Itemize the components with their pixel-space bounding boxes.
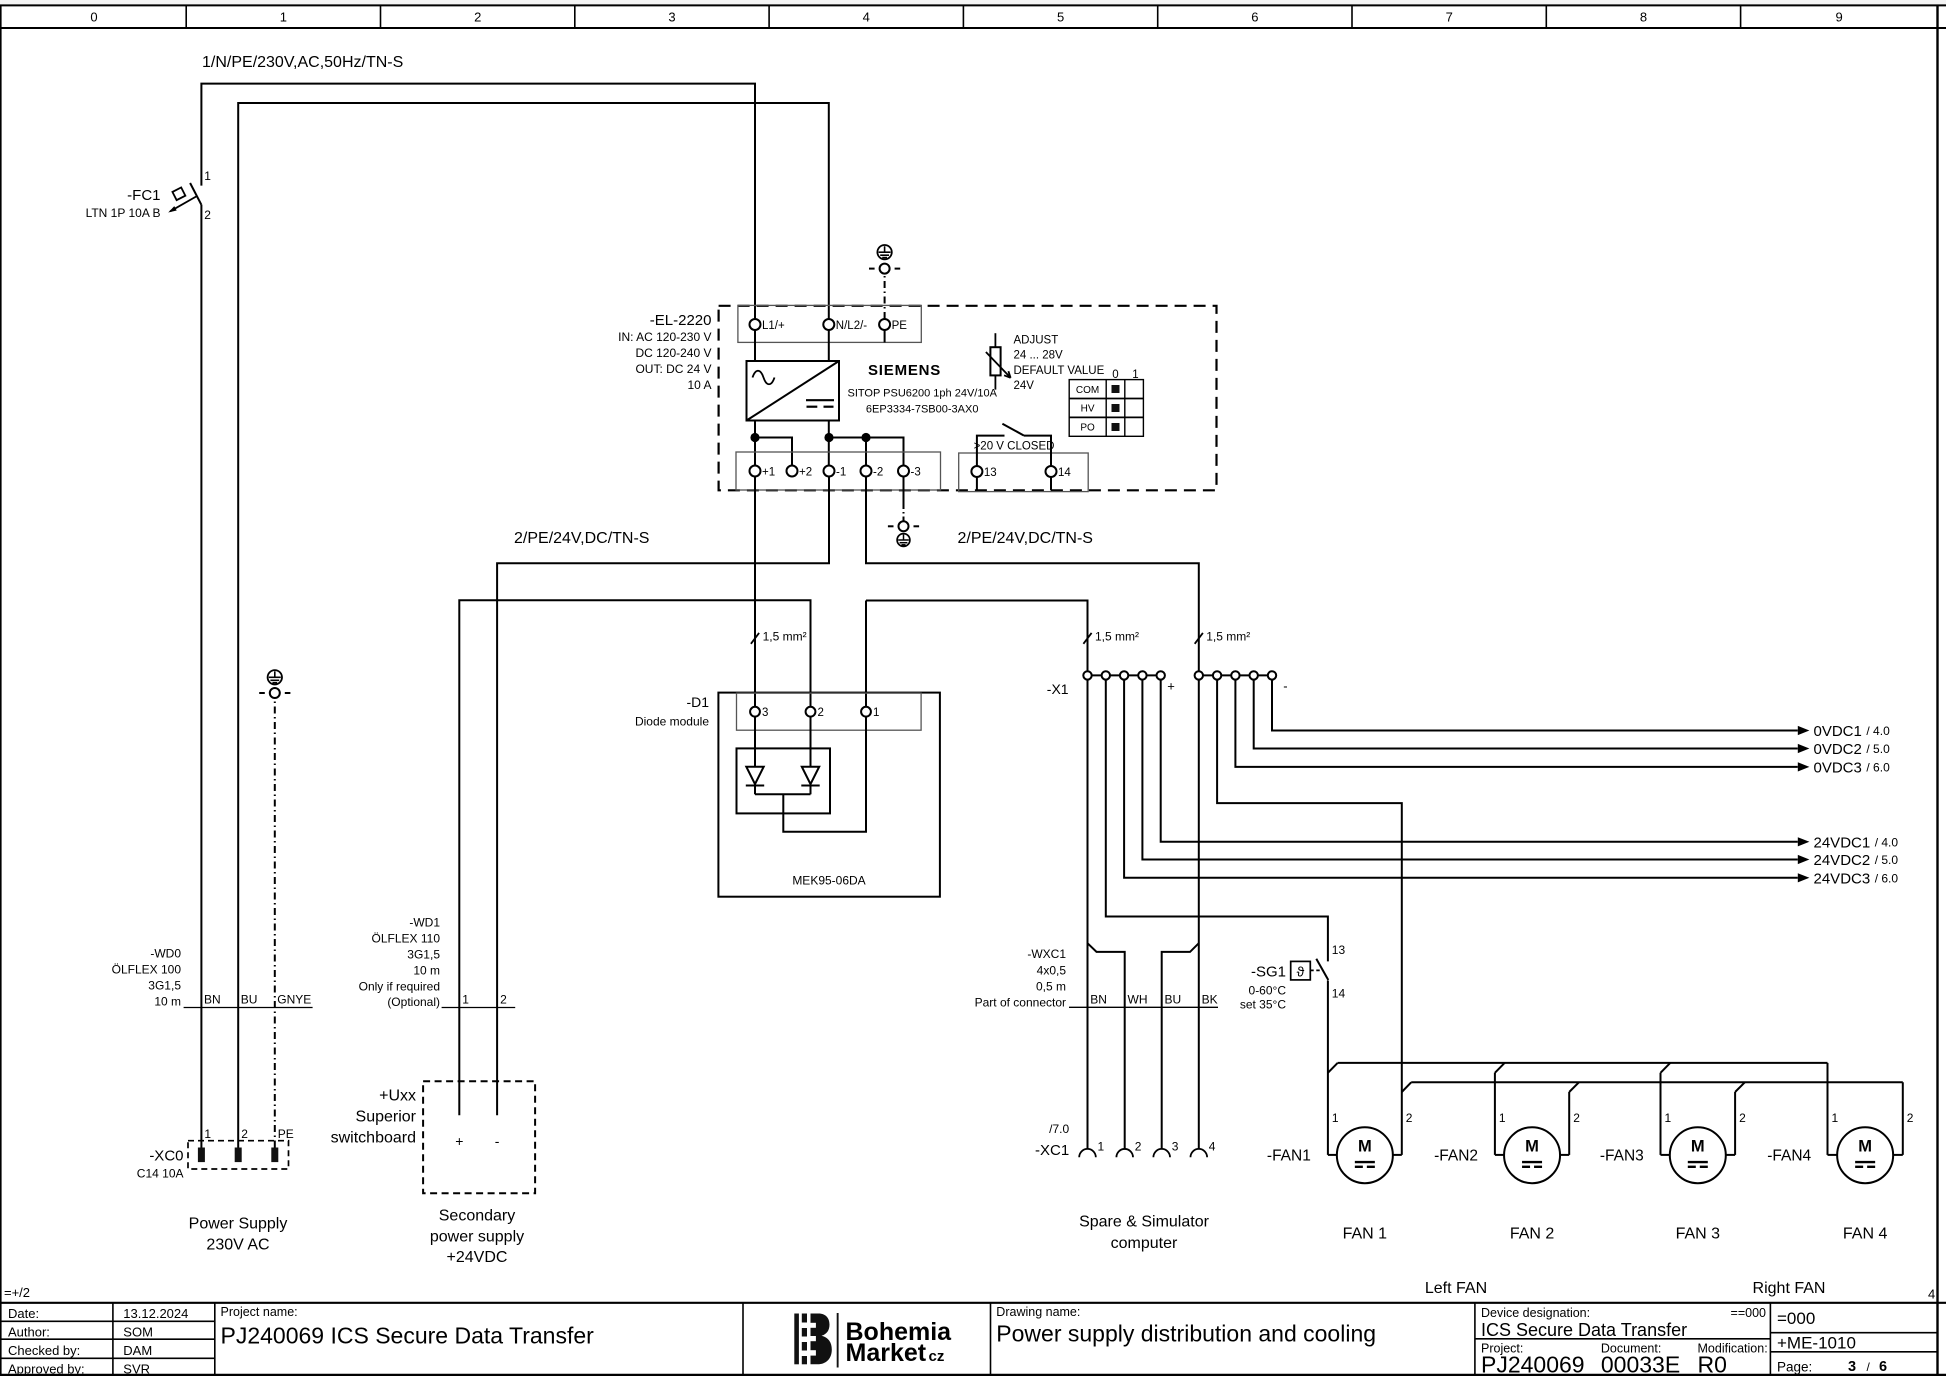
svg-text:Date:: Date: bbox=[8, 1306, 39, 1321]
svg-text:power supply: power supply bbox=[430, 1229, 524, 1246]
svg-text:Market: Market bbox=[846, 1339, 927, 1367]
svg-text:FAN 4: FAN 4 bbox=[1843, 1226, 1888, 1243]
svg-text:LTN 1P 10A B: LTN 1P 10A B bbox=[86, 206, 161, 220]
svg-text:2: 2 bbox=[818, 707, 824, 719]
svg-text:4: 4 bbox=[1209, 1140, 1216, 1154]
svg-text:-FAN3: -FAN3 bbox=[1600, 1148, 1644, 1165]
svg-text:-FC1: -FC1 bbox=[127, 187, 160, 204]
svg-text:-X1: -X1 bbox=[1047, 681, 1069, 697]
svg-text:8: 8 bbox=[1640, 10, 1647, 25]
svg-text:Drawing name:: Drawing name: bbox=[996, 1305, 1080, 1319]
svg-text:10 m: 10 m bbox=[154, 995, 181, 1009]
svg-text:-WD0: -WD0 bbox=[150, 947, 181, 961]
svg-text:C14 10A: C14 10A bbox=[137, 1167, 184, 1181]
svg-text:SITOP PSU6200 1ph 24V/10A: SITOP PSU6200 1ph 24V/10A bbox=[847, 388, 997, 400]
svg-text:10 m: 10 m bbox=[413, 964, 440, 978]
svg-text:Device designation:: Device designation: bbox=[1481, 1306, 1590, 1320]
svg-text:Right FAN: Right FAN bbox=[1753, 1280, 1826, 1297]
svg-text:1: 1 bbox=[873, 707, 879, 719]
svg-text:14: 14 bbox=[1058, 467, 1071, 479]
svg-text:2/PE/24V,DC/TN-S: 2/PE/24V,DC/TN-S bbox=[958, 530, 1093, 547]
svg-text:-2: -2 bbox=[873, 467, 883, 479]
svg-text:ADJUST: ADJUST bbox=[1014, 335, 1059, 347]
svg-text:/ 6.0: / 6.0 bbox=[1875, 871, 1899, 885]
svg-text:2: 2 bbox=[474, 10, 481, 25]
svg-text:3: 3 bbox=[1172, 1140, 1179, 1154]
svg-text:-1: -1 bbox=[836, 467, 846, 479]
svg-text:computer: computer bbox=[1111, 1235, 1178, 1252]
svg-text:=+/2: =+/2 bbox=[4, 1285, 30, 1300]
svg-text:4: 4 bbox=[1928, 1287, 1935, 1302]
svg-text:1: 1 bbox=[1832, 1111, 1839, 1125]
svg-text:switchboard: switchboard bbox=[331, 1130, 416, 1147]
svg-text:2: 2 bbox=[1739, 1111, 1746, 1125]
svg-text:PO: PO bbox=[1080, 423, 1095, 434]
svg-text:Part of connector: Part of connector bbox=[975, 996, 1066, 1010]
svg-text:6: 6 bbox=[1879, 1359, 1887, 1375]
svg-text:Diode module: Diode module bbox=[635, 715, 709, 729]
svg-text:Secondary: Secondary bbox=[439, 1208, 516, 1225]
svg-text:2/PE/24V,DC/TN-S: 2/PE/24V,DC/TN-S bbox=[514, 530, 649, 547]
svg-text:0: 0 bbox=[90, 10, 97, 25]
svg-text:>20 V CLOSED: >20 V CLOSED bbox=[974, 441, 1055, 453]
svg-text:24 ... 28V: 24 ... 28V bbox=[1014, 350, 1064, 362]
svg-text:3G1,5: 3G1,5 bbox=[407, 948, 440, 962]
svg-text:Author:: Author: bbox=[8, 1325, 50, 1340]
svg-text:2: 2 bbox=[1907, 1111, 1914, 1125]
svg-text:PE: PE bbox=[278, 1127, 294, 1141]
svg-text:Spare & Simulator: Spare & Simulator bbox=[1079, 1214, 1210, 1231]
svg-text:13: 13 bbox=[984, 467, 997, 479]
svg-text:2: 2 bbox=[500, 993, 507, 1007]
svg-text:Power supply distribution and: Power supply distribution and cooling bbox=[996, 1321, 1376, 1347]
svg-text:L1/+: L1/+ bbox=[762, 320, 785, 332]
svg-text:1,5 mm²: 1,5 mm² bbox=[1206, 630, 1250, 644]
svg-text:-SG1: -SG1 bbox=[1251, 964, 1286, 981]
svg-text:1: 1 bbox=[280, 10, 287, 25]
svg-text:24V: 24V bbox=[1014, 380, 1035, 392]
svg-text:2: 2 bbox=[1573, 1111, 1580, 1125]
svg-text:OUT: DC 24 V: OUT: DC 24 V bbox=[635, 362, 711, 376]
svg-text:0-60°C: 0-60°C bbox=[1249, 984, 1287, 998]
svg-text:M: M bbox=[1858, 1138, 1872, 1156]
svg-text:DEFAULT VALUE: DEFAULT VALUE bbox=[1014, 365, 1105, 377]
svg-text:/ 4.0: / 4.0 bbox=[1866, 724, 1890, 738]
svg-text:GNYE: GNYE bbox=[277, 993, 311, 1007]
svg-text:2: 2 bbox=[241, 1127, 248, 1141]
svg-text:/ 6.0: / 6.0 bbox=[1866, 760, 1890, 774]
svg-text:BN: BN bbox=[204, 993, 221, 1007]
svg-text:Power Supply: Power Supply bbox=[189, 1216, 288, 1233]
svg-text:FAN 1: FAN 1 bbox=[1343, 1226, 1388, 1243]
svg-text:R0: R0 bbox=[1698, 1352, 1727, 1376]
svg-text:0: 0 bbox=[1112, 369, 1118, 381]
svg-text:1: 1 bbox=[1332, 1111, 1339, 1125]
svg-text:-FAN2: -FAN2 bbox=[1434, 1148, 1478, 1165]
svg-text:M: M bbox=[1525, 1138, 1539, 1156]
svg-text:1: 1 bbox=[1499, 1111, 1506, 1125]
svg-text:FAN 3: FAN 3 bbox=[1676, 1226, 1721, 1243]
svg-text:-: - bbox=[1283, 679, 1287, 694]
svg-text:Project name:: Project name: bbox=[221, 1305, 298, 1319]
svg-text:/7.0: /7.0 bbox=[1049, 1122, 1069, 1136]
svg-text:5: 5 bbox=[1057, 10, 1064, 25]
svg-text:0VDC1: 0VDC1 bbox=[1814, 723, 1862, 740]
svg-text:9: 9 bbox=[1835, 10, 1842, 25]
svg-text:DAM: DAM bbox=[123, 1343, 152, 1358]
svg-text:1,5 mm²: 1,5 mm² bbox=[1095, 630, 1139, 644]
svg-text:M: M bbox=[1691, 1138, 1705, 1156]
svg-text:-XC0: -XC0 bbox=[149, 1148, 183, 1165]
svg-text:+1: +1 bbox=[762, 467, 775, 479]
svg-text:SVR: SVR bbox=[123, 1362, 150, 1376]
svg-text:cz: cz bbox=[929, 1348, 945, 1365]
svg-text:DC 120-240 V: DC 120-240 V bbox=[635, 346, 711, 360]
svg-text:/ 4.0: / 4.0 bbox=[1875, 835, 1899, 849]
svg-text:230V AC: 230V AC bbox=[206, 1237, 269, 1254]
svg-text:24VDC2: 24VDC2 bbox=[1814, 852, 1871, 869]
svg-text:+: + bbox=[1167, 679, 1175, 694]
svg-text:ϑ: ϑ bbox=[1297, 964, 1305, 980]
svg-text:Left FAN: Left FAN bbox=[1425, 1280, 1487, 1297]
svg-text:==000: ==000 bbox=[1731, 1306, 1767, 1320]
svg-text:2: 2 bbox=[1135, 1140, 1142, 1154]
svg-text:0,5 m: 0,5 m bbox=[1036, 980, 1066, 994]
svg-text:24VDC3: 24VDC3 bbox=[1814, 870, 1871, 887]
svg-text:1: 1 bbox=[1098, 1140, 1105, 1154]
svg-text:1,5 mm²: 1,5 mm² bbox=[763, 630, 807, 644]
svg-text:2: 2 bbox=[204, 208, 211, 222]
svg-text:=000: =000 bbox=[1777, 1309, 1815, 1328]
svg-text:Checked by:: Checked by: bbox=[8, 1343, 80, 1358]
svg-text:Only if required: Only if required bbox=[359, 980, 440, 994]
svg-text:Page:: Page: bbox=[1777, 1360, 1812, 1375]
svg-text:3G1,5: 3G1,5 bbox=[148, 979, 181, 993]
svg-text:MEK95-06DA: MEK95-06DA bbox=[792, 874, 865, 888]
svg-text:M: M bbox=[1358, 1138, 1372, 1156]
svg-text:N/L2/-: N/L2/- bbox=[836, 320, 867, 332]
svg-text:COM: COM bbox=[1076, 385, 1099, 396]
svg-text:-WD1: -WD1 bbox=[409, 916, 440, 930]
svg-text:24VDC1: 24VDC1 bbox=[1814, 834, 1871, 851]
svg-text:00033E: 00033E bbox=[1601, 1352, 1680, 1376]
svg-text:PJ240069 ICS Secure Data Trans: PJ240069 ICS Secure Data Transfer bbox=[221, 1323, 595, 1349]
svg-text:1: 1 bbox=[1132, 369, 1138, 381]
svg-text:IN: AC 120-230 V: IN: AC 120-230 V bbox=[618, 330, 711, 344]
svg-text:-EL-2220: -EL-2220 bbox=[650, 312, 712, 329]
svg-text:BN: BN bbox=[1090, 993, 1107, 1007]
svg-text:4x0,5: 4x0,5 bbox=[1037, 964, 1067, 978]
svg-text:/ 5.0: / 5.0 bbox=[1866, 742, 1890, 756]
svg-text:7: 7 bbox=[1446, 10, 1453, 25]
svg-text:+: + bbox=[455, 1133, 463, 1149]
svg-text:SIEMENS: SIEMENS bbox=[868, 362, 941, 379]
svg-text:PE: PE bbox=[892, 320, 908, 332]
svg-text:/ 5.0: / 5.0 bbox=[1875, 853, 1899, 867]
svg-text:+2: +2 bbox=[799, 467, 812, 479]
svg-text:-D1: -D1 bbox=[686, 694, 709, 710]
svg-text:PJ240069: PJ240069 bbox=[1481, 1352, 1585, 1376]
svg-text:SOM: SOM bbox=[123, 1325, 153, 1340]
svg-text:1/N/PE/230V,AC,50Hz/TN-S: 1/N/PE/230V,AC,50Hz/TN-S bbox=[202, 54, 403, 71]
svg-text:ÖLFLEX 100: ÖLFLEX 100 bbox=[112, 963, 182, 977]
svg-text:-FAN1: -FAN1 bbox=[1267, 1148, 1311, 1165]
svg-text:-WXC1: -WXC1 bbox=[1027, 947, 1066, 961]
svg-text:13: 13 bbox=[1332, 943, 1346, 957]
svg-text:0VDC3: 0VDC3 bbox=[1814, 759, 1862, 776]
svg-text:2: 2 bbox=[1406, 1111, 1413, 1125]
svg-text:ICS Secure Data Transfer: ICS Secure Data Transfer bbox=[1481, 1320, 1687, 1340]
svg-text:3: 3 bbox=[1848, 1359, 1856, 1375]
svg-text:13.12.2024: 13.12.2024 bbox=[123, 1306, 188, 1321]
svg-text:-3: -3 bbox=[911, 467, 921, 479]
svg-text:BU: BU bbox=[241, 993, 258, 1007]
svg-text:1: 1 bbox=[204, 169, 211, 183]
svg-text:Approved by:: Approved by: bbox=[8, 1362, 85, 1376]
svg-text:set 35°C: set 35°C bbox=[1240, 998, 1286, 1012]
svg-text:14: 14 bbox=[1332, 987, 1346, 1001]
svg-text:BU: BU bbox=[1165, 993, 1182, 1007]
svg-text:1: 1 bbox=[1665, 1111, 1672, 1125]
svg-text:HV: HV bbox=[1081, 404, 1095, 415]
svg-text:-FAN4: -FAN4 bbox=[1767, 1148, 1811, 1165]
svg-text:3: 3 bbox=[762, 707, 768, 719]
svg-text:+ME-1010: +ME-1010 bbox=[1777, 1334, 1856, 1353]
svg-text:BK: BK bbox=[1202, 993, 1218, 1007]
svg-text:FAN 2: FAN 2 bbox=[1510, 1226, 1555, 1243]
svg-text:Superior: Superior bbox=[356, 1109, 417, 1126]
svg-text:0VDC2: 0VDC2 bbox=[1814, 741, 1862, 758]
svg-text:6: 6 bbox=[1251, 10, 1258, 25]
svg-text:4: 4 bbox=[863, 10, 870, 25]
svg-text:-XC1: -XC1 bbox=[1035, 1142, 1069, 1159]
svg-text:1: 1 bbox=[204, 1127, 211, 1141]
svg-text:+Uxx: +Uxx bbox=[379, 1088, 416, 1105]
svg-text:-: - bbox=[495, 1133, 500, 1149]
svg-text:(Optional): (Optional) bbox=[387, 995, 440, 1009]
svg-text:1: 1 bbox=[462, 993, 469, 1007]
svg-text:ÖLFLEX 110: ÖLFLEX 110 bbox=[372, 932, 441, 946]
svg-text:WH: WH bbox=[1128, 993, 1148, 1007]
svg-text:+24VDC: +24VDC bbox=[447, 1249, 508, 1266]
svg-text:6EP3334-7SB00-3AX0: 6EP3334-7SB00-3AX0 bbox=[866, 404, 979, 416]
svg-text:10 A: 10 A bbox=[687, 378, 711, 392]
svg-text:3: 3 bbox=[668, 10, 675, 25]
